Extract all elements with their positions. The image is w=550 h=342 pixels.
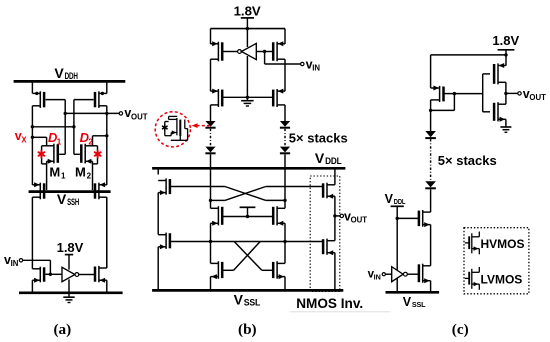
svg-text:DDL: DDL [394, 197, 406, 206]
svg-text:1.8V: 1.8V [492, 33, 519, 48]
svg-text:V: V [54, 65, 64, 81]
svg-text:OUT: OUT [131, 112, 148, 121]
svg-text:DDH: DDH [65, 71, 78, 81]
svg-text:(b): (b) [238, 321, 257, 338]
svg-text:DDL: DDL [325, 156, 342, 166]
svg-text:1: 1 [57, 138, 62, 147]
svg-text:1: 1 [61, 172, 66, 181]
svg-text:1.8V: 1.8V [234, 4, 261, 19]
svg-text:LVMOS: LVMOS [481, 273, 523, 287]
svg-text:NMOS Inv.: NMOS Inv. [296, 296, 363, 311]
svg-text:2: 2 [87, 172, 92, 181]
svg-text:IN: IN [11, 259, 19, 268]
svg-text:V: V [385, 192, 394, 206]
svg-text:OUT: OUT [351, 216, 368, 225]
svg-text:V: V [403, 295, 412, 309]
svg-text:SSH: SSH [67, 197, 79, 207]
svg-text:M: M [75, 164, 86, 179]
svg-text:X: X [21, 135, 27, 144]
svg-text:SSL: SSL [244, 298, 261, 308]
svg-text:M: M [49, 164, 60, 179]
svg-text:(a): (a) [53, 321, 71, 338]
svg-text:SSL: SSL [412, 300, 426, 309]
svg-text:OUT: OUT [529, 93, 546, 102]
svg-text:1.8V: 1.8V [57, 240, 84, 255]
svg-text:V: V [234, 292, 244, 308]
svg-text:V: V [57, 191, 67, 207]
svg-text:5× stacks: 5× stacks [438, 153, 497, 168]
svg-text:IN: IN [374, 273, 381, 282]
svg-text:(c): (c) [452, 321, 469, 338]
svg-text:IN: IN [312, 64, 320, 73]
svg-text:V: V [315, 150, 325, 166]
svg-text:2: 2 [88, 138, 93, 147]
svg-text:5× stacks: 5× stacks [289, 130, 348, 145]
svg-text:HVMOS: HVMOS [481, 237, 525, 251]
